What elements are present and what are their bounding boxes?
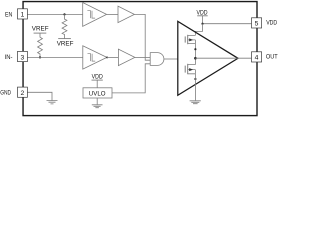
svg-text:VDD: VDD (266, 20, 277, 27)
wire AND output to driver (164, 58, 178, 60)
transistor Q1 (high side) (184, 36, 186, 42)
svg-text:VREF: VREF (32, 26, 49, 33)
wire Q2 body to source (194, 70, 196, 74)
buffer U4 (IN-, small) (118, 49, 134, 65)
pin 1 box (18, 9, 28, 19)
wire U4 to AND input (135, 56, 150, 58)
schmitt buffer U3 (IN-, large) (83, 46, 107, 69)
UVLO block (83, 88, 112, 98)
wire UVLO output to AND input (112, 64, 150, 93)
hysteresis glyph U3 (88, 54, 96, 61)
VDD rail bar (above UVLO) (92, 79, 103, 81)
wire GND pin to ground (27, 92, 52, 100)
wire VDD jog down to PMOS source (195, 24, 202, 36)
svg-text:UVLO: UVLO (89, 91, 106, 98)
VDD rail bar (top) (197, 15, 208, 17)
node OUT junction (194, 57, 197, 60)
svg-text:3: 3 (21, 54, 25, 61)
ground (pin 2) (47, 101, 58, 104)
node VDD (201, 23, 203, 25)
svg-text:VDD: VDD (197, 9, 208, 16)
resistor R-EN (to VREF) (62, 14, 67, 38)
buffer U2 (EN, small) (118, 6, 134, 22)
wire EN down to AND input (134, 14, 150, 60)
node IN-/resistor junction (39, 56, 41, 58)
AND gate G1 (150, 53, 164, 66)
hysteresis glyph U1 (87, 11, 95, 18)
wire VDD bar to UVLO (96, 80, 98, 88)
IC boundary box (23, 2, 257, 116)
pin 4 box (252, 52, 262, 62)
svg-text:OUT: OUT (266, 54, 278, 61)
wire IN- from pin 3 to buffer (27, 56, 82, 58)
wire U3 to U4 (107, 56, 119, 58)
node Q2 source (194, 78, 196, 80)
node EN/resistor junction (63, 13, 65, 15)
svg-text:4: 4 (255, 55, 259, 62)
wire EN from pin 1 to buffer (27, 13, 82, 15)
wire U1 to U2 (107, 13, 118, 15)
wire Q2 source to ground (194, 74, 196, 101)
wire UVLO to ground (96, 98, 98, 104)
resistor R-IN (to VREF) (38, 33, 43, 57)
wire VDD bar to node (202, 16, 204, 24)
wire OUT to pin 4 (195, 57, 251, 59)
svg-text:5: 5 (255, 21, 259, 28)
pin 5 box (252, 18, 262, 28)
ground (UVLO) (92, 105, 103, 108)
transistor Q2 (low side) (184, 66, 186, 73)
svg-text:2: 2 (21, 90, 25, 97)
node Q1 drain (194, 48, 196, 50)
ground (driver) (190, 101, 201, 104)
svg-text:VREF: VREF (57, 40, 74, 47)
svg-text:IN-: IN- (5, 54, 13, 61)
schmitt buffer U1 (EN, large) (83, 3, 107, 27)
VREF rail bar (left) (34, 32, 47, 34)
pin 2 box (18, 87, 28, 97)
wire VDD node to pin 5 (203, 23, 252, 25)
svg-text:EN: EN (5, 11, 12, 18)
svg-text:GND: GND (0, 89, 11, 96)
VREF rail bar (right) (58, 38, 71, 40)
node at U3 output (106, 56, 108, 58)
svg-text:VDD: VDD (92, 73, 103, 80)
output driver triangle (178, 21, 238, 95)
svg-text:1: 1 (21, 12, 25, 19)
pin 3 box (18, 51, 28, 61)
wire Q1 body/drain vertical (194, 40, 196, 65)
